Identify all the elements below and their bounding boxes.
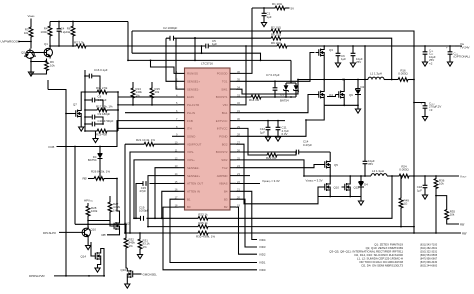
svg-text:VID2: VID2 bbox=[259, 252, 266, 256]
pin 35 TG1 bbox=[222, 78, 241, 84]
svg-text:PLLIN: PLLIN bbox=[187, 111, 195, 115]
ground under D4 bbox=[358, 200, 363, 206]
pin 22 VBIAS bbox=[219, 180, 240, 186]
wire B1 pin17 to VID1 bbox=[170, 199, 257, 262]
svg-text:0.01µF: 0.01µF bbox=[98, 98, 107, 102]
svg-text:C7 0.47µF: C7 0.47µF bbox=[266, 73, 280, 77]
svg-text:+: + bbox=[446, 46, 448, 50]
net label VOUT bbox=[460, 174, 467, 178]
wire riser x128 bbox=[127, 22, 129, 62]
svg-text:Q1: Q1 bbox=[44, 42, 48, 46]
svg-text:SENSE2+: SENSE2+ bbox=[187, 174, 200, 178]
svg-text:B1: B1 bbox=[187, 197, 191, 201]
svg-text:10k: 10k bbox=[439, 182, 444, 186]
svg-text:C10 4700pF: C10 4700pF bbox=[98, 119, 114, 123]
transistor Q11 bbox=[342, 181, 351, 193]
transistor Q14 bbox=[92, 250, 101, 262]
capacitor C19 1000pF bbox=[139, 205, 149, 220]
svg-text:R2 10Ω: R2 10Ω bbox=[271, 26, 282, 30]
svg-text:6.3V: 6.3V bbox=[282, 132, 288, 136]
pin 14 SENSE2+ bbox=[175, 172, 201, 178]
svg-text:BAT54: BAT54 bbox=[280, 98, 289, 102]
transistor Q4 bbox=[316, 89, 325, 101]
diode D3 BAT54 bbox=[88, 147, 103, 180]
resistor R15 10k bbox=[150, 82, 160, 106]
wire DPLSLP to Q10 base bbox=[59, 231, 81, 233]
wire output to VOUT bbox=[414, 175, 459, 177]
svg-text:AMPMD: AMPMD bbox=[217, 174, 228, 178]
capacitor C8 0.01uF bbox=[85, 95, 107, 111]
wire Q14 source bbox=[98, 262, 101, 267]
svg-text:EAIN: EAIN bbox=[187, 95, 194, 99]
capacitor C9 180pF bbox=[85, 112, 110, 124]
svg-text:PLLFLTR: PLLFLTR bbox=[187, 103, 199, 107]
resistor R11 2.5k bbox=[85, 86, 118, 94]
resistor R35 bbox=[436, 196, 459, 224]
wire Q10 emitter bbox=[87, 238, 89, 244]
pin 25 SW2 bbox=[221, 156, 240, 162]
svg-text:SW2: SW2 bbox=[221, 158, 228, 162]
resistor R6 1k bbox=[67, 22, 75, 47]
net label VID2 bbox=[259, 252, 266, 256]
wire B4 pin21 to VID4 bbox=[236, 191, 257, 239]
svg-text:RB′: RB′ bbox=[101, 233, 106, 237]
svg-text:R17 75k, 1%: R17 75k, 1% bbox=[96, 105, 113, 109]
svg-text:R8 10Ω: R8 10Ω bbox=[271, 33, 282, 37]
wire y224 bottom-left bbox=[75, 223, 127, 225]
wire Q14 drain bbox=[101, 249, 105, 277]
resistor R49 bbox=[399, 175, 409, 227]
svg-text:GMCHSEL: GMCHSEL bbox=[143, 272, 158, 276]
svg-text:PGND: PGND bbox=[219, 135, 227, 139]
svg-text:FCB: FCB bbox=[49, 145, 55, 149]
svg-text:10k: 10k bbox=[155, 90, 160, 94]
resistor R8 10ohm bbox=[270, 33, 282, 40]
ground under Q10 bbox=[86, 244, 91, 250]
wire Q16 gate GMCHSEL bbox=[136, 272, 157, 276]
wire Q5 source to SW2 bbox=[329, 171, 331, 177]
wire BG1 to gates bbox=[236, 95, 336, 113]
svg-text:UVPWRGOOD: UVPWRGOOD bbox=[1, 40, 21, 44]
resistor R14 BOOST1 bbox=[236, 95, 296, 102]
resistor R31 bbox=[138, 232, 150, 253]
pin 7 FCB bbox=[176, 117, 193, 123]
svg-text:VID1: VID1 bbox=[259, 261, 266, 265]
wire SW2 pin25 bbox=[236, 160, 305, 177]
svg-text:DPLSLP#: DPLSLP# bbox=[43, 231, 56, 235]
ground under COUT bbox=[422, 115, 427, 121]
svg-text:R23 1k: R23 1k bbox=[198, 213, 208, 217]
pin 16 ATTEN IN bbox=[175, 188, 200, 194]
svg-text:100Ω: 100Ω bbox=[41, 30, 49, 34]
net label VID3 bbox=[259, 245, 266, 249]
ground under Q2 bbox=[28, 71, 33, 77]
rail sense2- y218 bbox=[134, 176, 392, 218]
svg-text:R21 10.4k, 1%: R21 10.4k, 1% bbox=[136, 138, 155, 142]
wire ATTEN IN pin16 bbox=[161, 191, 179, 219]
capacitor C7 0.47uF boost1 bbox=[266, 73, 280, 97]
svg-text:35V: 35V bbox=[368, 162, 373, 166]
svg-text:0.003Ω: 0.003Ω bbox=[399, 168, 409, 172]
rail sense y31 bbox=[132, 31, 414, 80]
svg-text:ITH: ITH bbox=[187, 127, 192, 131]
wire bus x75 bbox=[74, 147, 76, 225]
ground cluster rail bbox=[85, 131, 98, 143]
ground under C5b bbox=[335, 62, 340, 68]
wire riser x195 bbox=[194, 37, 196, 60]
wire source bus phase1 bbox=[324, 101, 359, 108]
wire Q2 collector to gnd bus bbox=[30, 57, 47, 71]
pin 20 B3 bbox=[224, 196, 240, 202]
pin 17 B1 bbox=[175, 196, 191, 202]
svg-text:100k: 100k bbox=[91, 209, 98, 213]
pin 21 B4 bbox=[224, 188, 240, 194]
svg-text:R9 10Ω: R9 10Ω bbox=[271, 41, 282, 45]
wire vin to sw x365 bbox=[364, 46, 366, 80]
wire output riser lower bbox=[413, 176, 415, 227]
wire PGND pin28 bbox=[236, 105, 324, 136]
net label DPLSLP bbox=[43, 231, 56, 235]
wire Q14 gate bbox=[91, 242, 92, 256]
wire cluster left rail bbox=[84, 70, 86, 131]
wire Q2 base to Q1 bbox=[33, 52, 43, 54]
pin 2 SENSE1+ bbox=[176, 78, 200, 84]
svg-text:R26 84.5k, 1%: R26 84.5k, 1% bbox=[91, 170, 110, 174]
svg-text:Q16: Q16 bbox=[121, 268, 127, 272]
svg-text:0.47µF: 0.47µF bbox=[303, 143, 312, 147]
svg-text:1µF: 1µF bbox=[267, 15, 272, 19]
svg-text:Q10: Q10 bbox=[334, 186, 340, 190]
ground under Q14 bbox=[95, 267, 100, 273]
svg-text:C9 180pF: C9 180pF bbox=[98, 112, 111, 116]
svg-text:B0: B0 bbox=[187, 205, 191, 209]
wire sense rail y46 bbox=[87, 45, 462, 47]
net label VID4 bbox=[259, 238, 266, 242]
capacitor C10 4700pF bbox=[85, 119, 114, 126]
pin 19 B2 bbox=[224, 203, 240, 209]
pin 36 PGOOD bbox=[217, 70, 241, 76]
transistor Q10 BJT bbox=[81, 226, 91, 238]
note vendor table bbox=[329, 242, 438, 267]
svg-text:SENSE1-: SENSE1- bbox=[187, 87, 199, 91]
diode D1 BAT54 dual bbox=[280, 60, 298, 102]
svg-text:R25 1k: R25 1k bbox=[198, 221, 208, 225]
pin 6 PLLIN bbox=[176, 109, 195, 115]
pin 1 RUN/SS bbox=[176, 70, 198, 76]
wire EAIN pin4 bbox=[118, 96, 179, 98]
transistor Q7 bbox=[73, 108, 82, 120]
ground under D2 bbox=[355, 108, 360, 114]
svg-text:R19 43k: R19 43k bbox=[96, 132, 107, 136]
wire SW1 pin34 bbox=[236, 79, 299, 94]
wire BG2 to gates bbox=[236, 144, 322, 204]
capacitor C5 1uF series bbox=[204, 39, 217, 48]
svg-text:1µF: 1µF bbox=[341, 57, 346, 61]
resistor R3 10k bbox=[24, 26, 33, 38]
capacitor C4 2.2uF bbox=[57, 22, 69, 47]
wire Q7 gate bbox=[65, 113, 72, 115]
svg-text:7V-24V: 7V-24V bbox=[460, 45, 470, 49]
svg-text:R14 1Ω: R14 1Ω bbox=[249, 98, 260, 102]
resistor R30 4.99k bbox=[196, 231, 215, 238]
ground under CIN optional bbox=[447, 61, 452, 67]
wire SENSE2+ pin14 bbox=[147, 176, 178, 228]
svg-text:VID3: VID3 bbox=[259, 245, 266, 249]
transistor Q6 bbox=[336, 89, 345, 101]
pin 31 BG1 bbox=[222, 109, 241, 115]
capacitor COUT 270uF bbox=[421, 102, 442, 116]
wire Q7 drain bbox=[81, 92, 85, 108]
svg-text:1µF: 1µF bbox=[212, 42, 217, 46]
pin 26 BOOST2 bbox=[216, 148, 241, 154]
resistor R9 10k bbox=[31, 59, 55, 75]
pin 11 VOS- bbox=[175, 148, 194, 154]
svg-text:R7 3.3k: R7 3.3k bbox=[74, 41, 85, 45]
wire rail y53 bbox=[132, 53, 261, 60]
resistor R26 84.5k bbox=[88, 170, 118, 181]
svg-text:C16 0.1µF: C16 0.1µF bbox=[94, 68, 108, 72]
svg-text:(602) 244-6600: (602) 244-6600 bbox=[420, 264, 438, 267]
pin 5 PLLFLTR bbox=[176, 101, 199, 107]
svg-text:Q3: Q3 bbox=[329, 48, 333, 52]
wire Q10 collector to Q12 gate bbox=[88, 220, 110, 222]
resistor R24 0.003 sense bbox=[387, 165, 415, 178]
wire Q10 Q11 drains bbox=[330, 176, 350, 181]
wire SENSE2- pin13 bbox=[154, 168, 178, 220]
svg-text:BG2: BG2 bbox=[222, 142, 228, 146]
svg-text:TG1: TG1 bbox=[222, 80, 228, 84]
wire VBIAS pin22 bbox=[236, 183, 260, 185]
pin 24 TG2 bbox=[222, 164, 241, 170]
pin 32 VIN bbox=[223, 101, 241, 107]
resistor R27 4.02k bbox=[108, 196, 121, 226]
transistor Q16 bbox=[127, 268, 136, 280]
resistor R25 1k bbox=[197, 221, 209, 229]
svg-text:1000pF: 1000pF bbox=[139, 209, 149, 213]
transistor Q1 bbox=[43, 47, 53, 59]
pin 30 EXTVCC bbox=[216, 117, 241, 123]
pin 10 VDIFFOUT bbox=[175, 141, 202, 147]
svg-text:×2: ×2 bbox=[429, 61, 433, 65]
svg-text:VID4: VID4 bbox=[259, 238, 266, 242]
wire VOS+ pin12 bbox=[133, 160, 178, 219]
svg-text:BG1: BG1 bbox=[222, 111, 228, 115]
capacitor C14 0.47uF boost2 bbox=[236, 140, 330, 155]
svg-text:+: + bbox=[421, 102, 423, 106]
pin 34 SW1 bbox=[221, 86, 240, 92]
capacitor CIN 10uF 25V x2 bbox=[423, 46, 436, 65]
wire rail y60 bbox=[128, 60, 291, 62]
svg-text:C2 1000pF: C2 1000pF bbox=[163, 26, 178, 30]
svg-text:L1 1.3µH: L1 1.3µH bbox=[370, 72, 382, 76]
wire VIN pin32 riser bbox=[236, 45, 247, 105]
svg-text:BOOST1: BOOST1 bbox=[216, 95, 228, 99]
wire ITH pin8 bbox=[118, 127, 179, 129]
wire UVPWRGOOD bbox=[19, 41, 32, 43]
svg-text:1µF: 1µF bbox=[260, 130, 265, 134]
pin 8 ITH bbox=[176, 125, 192, 131]
svg-text:47pF: 47pF bbox=[139, 189, 146, 193]
pin 23 AMPMD bbox=[217, 172, 241, 178]
transistor Q2 bbox=[24, 49, 36, 59]
svg-text:D1: D1 bbox=[280, 93, 284, 97]
ground under C18 bbox=[422, 194, 427, 200]
wire SGND pin9 bbox=[172, 135, 179, 137]
svg-text:0.003Ω: 0.003Ω bbox=[398, 72, 408, 76]
net label FCB bbox=[49, 145, 55, 149]
wire bus x66 bbox=[48, 80, 66, 276]
wire SW2 node bbox=[304, 175, 371, 177]
svg-text:Q10: Q10 bbox=[91, 228, 97, 232]
pin 15 ATTEN OUT bbox=[175, 180, 204, 186]
svg-text:VBIAS: VBIAS bbox=[219, 182, 228, 186]
svg-text:PGOOD: PGOOD bbox=[217, 72, 228, 76]
wire B0 pin18 to VID0 bbox=[163, 207, 257, 270]
capacitor CIN optional bbox=[446, 46, 470, 61]
svg-text:5V: 5V bbox=[291, 6, 295, 10]
resistor R32 bbox=[124, 224, 135, 268]
rail sense y38 bbox=[176, 38, 392, 79]
net label VIN bbox=[455, 42, 470, 50]
resistor R19 43k bbox=[84, 129, 118, 136]
resistor R4 100 bbox=[41, 22, 52, 47]
svg-text:1%: 1% bbox=[143, 245, 148, 249]
svg-text:FCB: FCB bbox=[187, 119, 193, 123]
ground under R31 bbox=[137, 253, 142, 259]
net label UVPWRGOOD bbox=[1, 40, 21, 44]
rail sense2+ y226 bbox=[148, 226, 415, 228]
resistor R17 75k bbox=[85, 105, 119, 112]
svg-text:SENSE2-: SENSE2- bbox=[187, 166, 199, 170]
svg-text:ATTEN IN: ATTEN IN bbox=[187, 190, 200, 194]
svg-text:Q2: Q2 bbox=[21, 51, 25, 55]
svg-text:SW1: SW1 bbox=[221, 87, 228, 91]
wire AMPMD pin23 bbox=[236, 175, 250, 177]
net label VID1 bbox=[259, 261, 266, 265]
capacitor C1 1uF bbox=[262, 8, 272, 21]
net label VBIAS bbox=[28, 14, 35, 18]
capacitor C15 47pF bbox=[135, 181, 178, 219]
wire Q3 drain to VIN bbox=[323, 45, 325, 47]
svg-text:RB″: RB″ bbox=[462, 231, 467, 235]
ground under C11 bbox=[275, 136, 280, 142]
svg-text:×3: ×3 bbox=[429, 108, 433, 112]
net label VBIAS 3.3V bbox=[262, 179, 323, 184]
wire FCB net bbox=[57, 121, 179, 148]
svg-text:VIN: VIN bbox=[223, 103, 228, 107]
pin 3 SENSE1- bbox=[176, 86, 199, 92]
pin 9 SGND bbox=[176, 133, 195, 139]
resistor R2 10ohm bbox=[270, 26, 282, 33]
resistor R22 INTVCC to boost2 bbox=[236, 128, 296, 160]
svg-text:R1 10Ω: R1 10Ω bbox=[272, 2, 283, 6]
resistor R13 140k bbox=[131, 82, 142, 106]
svg-text:BOOST2: BOOST2 bbox=[216, 150, 228, 154]
net label DPRSLPVR bbox=[29, 274, 45, 278]
svg-text:B4: B4 bbox=[224, 190, 228, 194]
rail top-left y22 bbox=[50, 21, 128, 23]
svg-text:25V: 25V bbox=[356, 60, 361, 64]
svg-text:BAT54: BAT54 bbox=[88, 158, 97, 162]
wire VOS- pin11 bbox=[129, 152, 178, 234]
diode D4 schottky bbox=[358, 176, 368, 197]
resistor R23 1k bbox=[197, 213, 209, 221]
wire PLLIN pin6 bbox=[125, 112, 179, 114]
capacitor C16 0.1uF bbox=[85, 68, 108, 92]
wire source bus phase2 bbox=[318, 193, 361, 200]
svg-text:VID0: VID0 bbox=[259, 268, 266, 272]
wire DPRSLPVR bbox=[54, 275, 105, 277]
svg-text:Q5: Q5 bbox=[334, 163, 338, 167]
wire Q16 source bbox=[126, 280, 128, 283]
svg-text:1µF: 1µF bbox=[417, 188, 422, 192]
transistor Q10 bbox=[322, 181, 331, 193]
svg-text:B3: B3 bbox=[224, 197, 228, 201]
wire cluster right rail bbox=[117, 91, 119, 131]
wire PLLFLTR pin5 bbox=[117, 104, 178, 106]
capacitor C11 4.7uF bbox=[276, 121, 290, 137]
resistor R21 10.4k bbox=[125, 138, 179, 146]
pin 28 PGND bbox=[219, 133, 240, 139]
svg-text:D2: D2 bbox=[361, 85, 365, 89]
resistor R1 10ohm bbox=[252, 2, 294, 10]
svg-text:R11 2.5k: R11 2.5k bbox=[96, 86, 108, 90]
resistor R36 bbox=[434, 176, 445, 234]
transistor Q3 bbox=[316, 47, 325, 59]
wire TG1 to Q3 gate bbox=[236, 53, 315, 83]
inductor L1 1.3uH bbox=[368, 72, 384, 80]
svg-text:LTC3716: LTC3716 bbox=[201, 61, 213, 65]
svg-text:B2: B2 bbox=[224, 205, 228, 209]
wire riser x150 to pin1 bbox=[151, 60, 179, 73]
wire riser pin10 bbox=[124, 144, 126, 234]
inductor L2 1.3uH bbox=[371, 169, 387, 176]
svg-text:D4: D4 bbox=[364, 183, 368, 187]
svg-text:INTVCC: INTVCC bbox=[217, 127, 228, 131]
svg-text:RB′: RB′ bbox=[82, 177, 87, 181]
wire VBIAS to R3 bbox=[30, 19, 32, 27]
resistor R28 100k bbox=[86, 203, 98, 228]
ground under Q16 bbox=[125, 283, 130, 289]
svg-text:SENSE1+: SENSE1+ bbox=[187, 80, 200, 84]
net label RB1 left bbox=[82, 177, 87, 181]
wire C2 right lead down to pin3 bbox=[176, 38, 179, 89]
rail feedback y233 bbox=[125, 232, 461, 234]
pin 4 EAIN bbox=[176, 93, 194, 99]
pin 12 VOS+ bbox=[175, 156, 195, 162]
svg-text:1%: 1% bbox=[129, 244, 134, 248]
net label RB2 bbox=[462, 231, 467, 235]
svg-text:L2 1.3µH: L2 1.3µH bbox=[372, 169, 384, 173]
svg-text:Q7: Q7 bbox=[73, 103, 77, 107]
net label HPVCC bbox=[84, 199, 94, 203]
wire CB2 column bbox=[364, 80, 366, 160]
wire Q10 collector bbox=[87, 226, 89, 228]
resistor R9b 10ohm bbox=[271, 41, 288, 48]
ground under C1 bbox=[261, 21, 266, 27]
svg-text:DPRSLPVR: DPRSLPVR bbox=[29, 274, 45, 278]
capacitor CB2 bbox=[363, 159, 375, 177]
wire riser x201 bbox=[201, 45, 203, 54]
svg-text:TG2: TG2 bbox=[222, 166, 228, 170]
capacitor C18 1uF bbox=[417, 176, 428, 194]
svg-text:RUN/SS: RUN/SS bbox=[187, 72, 198, 76]
wire R3 to Q2 bbox=[30, 38, 32, 49]
svg-text:VOS-: VOS- bbox=[187, 150, 194, 154]
pin 29 INTVCC bbox=[217, 125, 241, 131]
wire Q5 drain boost2 node bbox=[329, 152, 331, 159]
wire Q7 source bbox=[80, 120, 82, 126]
